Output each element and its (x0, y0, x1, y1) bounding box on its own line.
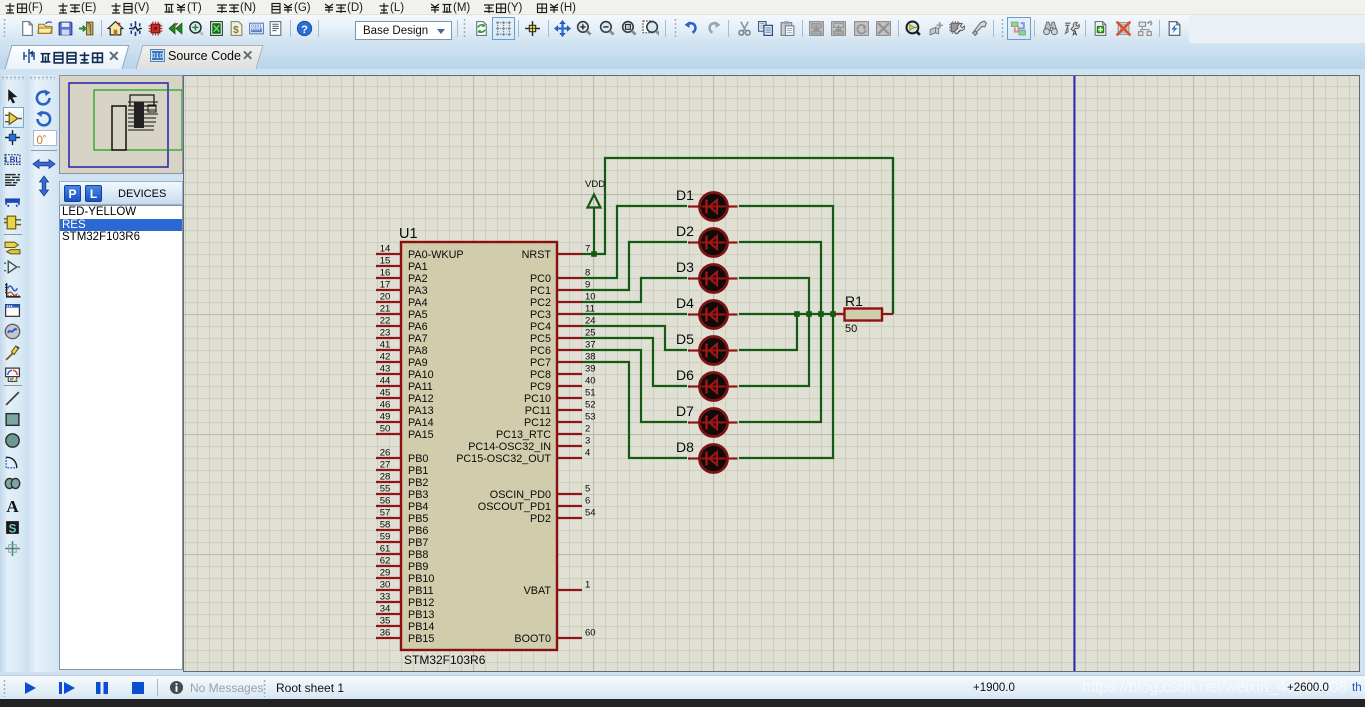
svg-text:42: 42 (380, 352, 391, 363)
svg-text:A: A (6, 497, 19, 514)
svg-text:16: 16 (380, 268, 391, 279)
svg-text:VDD: VDD (585, 179, 605, 190)
svg-text:2: 2 (585, 424, 590, 435)
svg-text:PB2: PB2 (408, 477, 428, 489)
svg-text:8: 8 (585, 268, 590, 279)
svg-text:PA4: PA4 (408, 297, 428, 309)
svg-text:BOOT0: BOOT0 (514, 633, 551, 645)
svg-text:PB3: PB3 (408, 489, 428, 501)
svg-text:PA12: PA12 (408, 393, 434, 405)
svg-text:5: 5 (585, 484, 590, 495)
svg-text:NRST: NRST (522, 249, 552, 261)
svg-text:PA15: PA15 (408, 429, 434, 441)
svg-text:S: S (9, 522, 17, 535)
svg-text:D6: D6 (676, 367, 694, 383)
svg-text:14: 14 (380, 244, 391, 255)
svg-text:PB7: PB7 (408, 537, 428, 549)
svg-text:58: 58 (380, 520, 391, 531)
svg-text:PA9: PA9 (408, 357, 428, 369)
svg-text:46: 46 (380, 400, 391, 411)
svg-text:PC6: PC6 (530, 345, 551, 357)
svg-text:D1: D1 (676, 187, 694, 203)
svg-text:PC12: PC12 (524, 417, 551, 429)
svg-text:PB0: PB0 (408, 453, 428, 465)
svg-text:PB6: PB6 (408, 525, 428, 537)
svg-text:PC7: PC7 (530, 357, 551, 369)
svg-text:010: 010 (152, 53, 164, 60)
svg-text:53: 53 (585, 412, 596, 423)
svg-text:29: 29 (380, 568, 391, 579)
svg-text:40: 40 (585, 376, 596, 387)
svg-text:33: 33 (380, 592, 391, 603)
svg-text:PA6: PA6 (408, 321, 428, 333)
svg-text:VBAT: VBAT (524, 585, 552, 597)
svg-text:PA14: PA14 (408, 417, 434, 429)
svg-text:PA3: PA3 (408, 285, 428, 297)
svg-text:24: 24 (585, 316, 596, 327)
svg-text:7: 7 (585, 244, 590, 255)
svg-text:STM32F103R6: STM32F103R6 (404, 653, 486, 667)
svg-text:PC2: PC2 (530, 297, 551, 309)
svg-text:R1: R1 (845, 293, 863, 309)
svg-text:?: ? (301, 24, 308, 36)
svg-text:51: 51 (585, 388, 596, 399)
svg-text:39: 39 (585, 364, 596, 375)
svg-text:PC15-OSC32_OUT: PC15-OSC32_OUT (456, 453, 551, 465)
svg-text:D4: D4 (676, 295, 694, 311)
svg-text:35: 35 (380, 616, 391, 627)
svg-text:23: 23 (380, 328, 391, 339)
svg-text:43: 43 (380, 364, 391, 375)
svg-text:PC0: PC0 (530, 273, 551, 285)
svg-text:OSCOUT_PD1: OSCOUT_PD1 (478, 501, 551, 513)
svg-text:55: 55 (380, 484, 391, 495)
svg-text:D8: D8 (676, 439, 694, 455)
svg-text:D2: D2 (676, 223, 694, 239)
svg-text:PB8: PB8 (408, 549, 428, 561)
svg-text:PB9: PB9 (408, 561, 428, 573)
svg-text:17: 17 (380, 280, 391, 291)
svg-text:OSCIN_PD0: OSCIN_PD0 (490, 489, 551, 501)
svg-text:PC5: PC5 (530, 333, 551, 345)
svg-text:21: 21 (380, 304, 391, 315)
svg-text:PD2: PD2 (530, 513, 551, 525)
svg-text:20: 20 (380, 292, 391, 303)
svg-text:6: 6 (585, 496, 590, 507)
svg-text:10: 10 (585, 292, 596, 303)
svg-text:3: 3 (585, 436, 590, 447)
svg-text:0101: 0101 (251, 23, 262, 29)
svg-text:PA5: PA5 (408, 309, 428, 321)
svg-text:62: 62 (380, 556, 391, 567)
svg-text:44: 44 (380, 376, 391, 387)
svg-text:56: 56 (380, 496, 391, 507)
svg-text:49: 49 (380, 412, 391, 423)
svg-text:PA11: PA11 (408, 381, 433, 393)
svg-text:LBL: LBL (5, 156, 21, 165)
svg-text:50: 50 (380, 424, 391, 435)
svg-text:PB5: PB5 (408, 513, 428, 525)
svg-text:PB10: PB10 (408, 573, 434, 585)
svg-text:1: 1 (585, 580, 590, 591)
svg-text:22: 22 (380, 316, 391, 327)
svg-text:52: 52 (585, 400, 596, 411)
svg-text:PC3: PC3 (530, 309, 551, 321)
svg-text:60: 60 (585, 628, 596, 639)
svg-text:25: 25 (585, 328, 596, 339)
svg-text:PA8: PA8 (408, 345, 428, 357)
svg-text:36: 36 (380, 628, 391, 639)
svg-text:34: 34 (380, 604, 391, 615)
svg-text:D3: D3 (676, 259, 694, 275)
svg-text:$: $ (233, 25, 239, 36)
svg-text:9: 9 (585, 280, 590, 291)
svg-text:PA2: PA2 (408, 273, 428, 285)
svg-text:PB11: PB11 (408, 585, 434, 597)
svg-text:PB12: PB12 (408, 597, 434, 609)
svg-text:59: 59 (380, 532, 391, 543)
svg-text:PC4: PC4 (530, 321, 551, 333)
svg-text:50: 50 (845, 323, 857, 335)
svg-text:PA7: PA7 (408, 333, 428, 345)
svg-text:PC9: PC9 (530, 381, 551, 393)
svg-text:D5: D5 (676, 331, 694, 347)
svg-text:PC13_RTC: PC13_RTC (496, 429, 551, 441)
svg-text:38: 38 (585, 352, 596, 363)
svg-text:PB4: PB4 (408, 501, 428, 513)
svg-text:30: 30 (380, 580, 391, 591)
svg-text:PA1: PA1 (408, 261, 428, 273)
svg-text:PA10: PA10 (408, 369, 434, 381)
svg-text:61: 61 (380, 544, 391, 555)
svg-text:U1: U1 (399, 226, 418, 242)
svg-text:37: 37 (585, 340, 596, 351)
svg-text:PC14-OSC32_IN: PC14-OSC32_IN (468, 441, 551, 453)
svg-text:57: 57 (380, 508, 391, 519)
svg-text:PB15: PB15 (408, 633, 434, 645)
svg-text:27: 27 (380, 460, 391, 471)
svg-text:28: 28 (380, 472, 391, 483)
svg-text:26: 26 (380, 448, 391, 459)
svg-text:PB14: PB14 (408, 621, 434, 633)
svg-text:PA0-WKUP: PA0-WKUP (408, 249, 464, 261)
svg-text:45: 45 (380, 388, 391, 399)
svg-text:PC10: PC10 (524, 393, 551, 405)
svg-text:D7: D7 (676, 403, 694, 419)
svg-text:PB13: PB13 (408, 609, 434, 621)
svg-text:54: 54 (585, 508, 596, 519)
svg-text:PC1: PC1 (530, 285, 551, 297)
svg-text:A: A (1072, 30, 1077, 37)
svg-text:PA13: PA13 (408, 405, 434, 417)
svg-text:PC11: PC11 (525, 405, 551, 417)
svg-text:41: 41 (380, 340, 391, 351)
svg-text:PB1: PB1 (408, 465, 428, 477)
svg-text:11: 11 (585, 304, 595, 315)
svg-text:PC8: PC8 (530, 369, 551, 381)
svg-text:4: 4 (585, 448, 590, 459)
svg-text:15: 15 (380, 256, 391, 267)
